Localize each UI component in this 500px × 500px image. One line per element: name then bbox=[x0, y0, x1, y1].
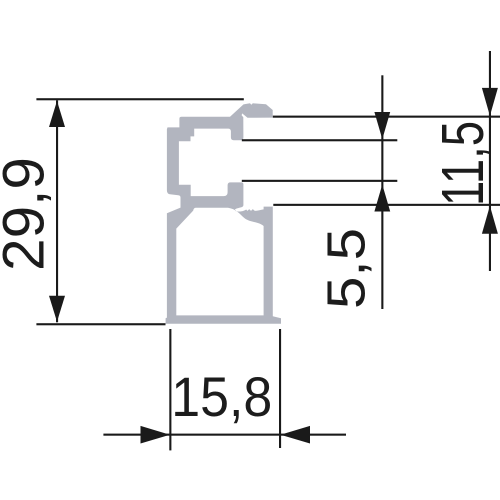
arrow down 5,5 bbox=[374, 112, 390, 139]
arrow right 15,8 bbox=[141, 426, 170, 444]
extension line right (15,8) bbox=[279, 329, 281, 448]
dim line 4 (wall top, y 205.5) bbox=[273, 204, 500, 206]
dim line 3 (slot bottom, y 180.8) bbox=[242, 180, 397, 182]
dim line 2 (slot top, y 140.2) bbox=[242, 139, 397, 141]
dimension line 11,5 vertical bbox=[489, 51, 491, 271]
arrow up 5,5 bbox=[374, 185, 390, 212]
svg-text:5,5: 5,5 bbox=[317, 228, 377, 309]
arrow up 29,9 bbox=[49, 101, 65, 127]
svg-text:11,5: 11,5 bbox=[430, 121, 496, 206]
aluminium profile cross-section bbox=[166, 103, 281, 323]
arrow up 11,5 bbox=[482, 206, 498, 234]
extension line left (15,8) bbox=[169, 329, 171, 450]
arrow down 11,5 bbox=[482, 88, 498, 116]
svg-text:29,9: 29,9 bbox=[0, 157, 57, 271]
dimension line 5,5 vertical bbox=[381, 75, 383, 309]
arrow down 29,9 bbox=[49, 296, 65, 322]
dimension line 29,9 vertical bbox=[56, 100, 58, 322]
extension line bottom (29,9) bbox=[36, 323, 165, 325]
arrow left 15,8 bbox=[281, 426, 311, 444]
extension line top (29,9) bbox=[36, 98, 243, 100]
svg-text:15,8: 15,8 bbox=[171, 365, 272, 428]
dimension line 15,8 horizontal bbox=[103, 434, 346, 436]
dim line 1 (claw bottom, y 116.6) bbox=[273, 116, 500, 118]
